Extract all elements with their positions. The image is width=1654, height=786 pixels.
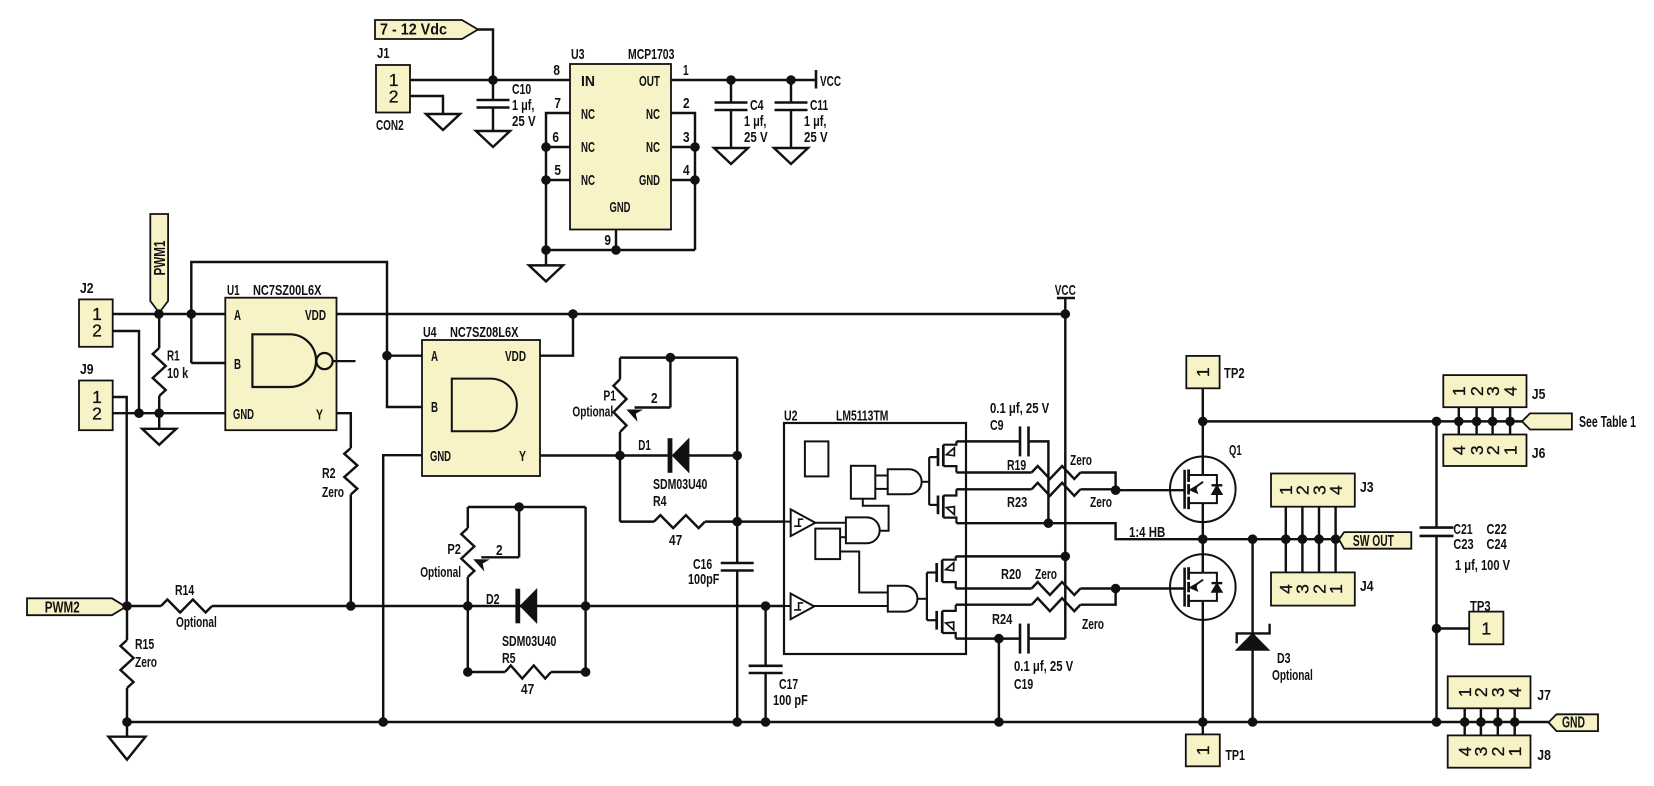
svg-text:CON2: CON2 [376, 117, 404, 134]
svg-text:3: 3 [683, 129, 690, 146]
svg-text:Zero: Zero [1070, 452, 1092, 469]
svg-text:SDM03U40: SDM03U40 [502, 633, 556, 650]
svg-text:GND: GND [1562, 715, 1585, 732]
svg-text:R1: R1 [167, 348, 180, 365]
svg-text:Optional: Optional [1272, 667, 1313, 684]
svg-text:25 V: 25 V [804, 129, 828, 146]
svg-text:47: 47 [521, 681, 534, 698]
svg-text:LM5113TM: LM5113TM [836, 408, 888, 425]
svg-text:C11: C11 [810, 97, 828, 114]
svg-text:NC: NC [581, 139, 595, 156]
svg-text:NC: NC [646, 106, 660, 123]
svg-text:Optional: Optional [572, 404, 613, 421]
svg-text:R20: R20 [1001, 566, 1021, 583]
svg-text:SW OUT: SW OUT [1353, 533, 1394, 550]
svg-text:C4: C4 [750, 97, 764, 114]
svg-text:Zero: Zero [1082, 616, 1104, 633]
svg-text:4: 4 [1326, 485, 1346, 495]
svg-text:2: 2 [683, 95, 690, 112]
svg-text:R14: R14 [175, 582, 195, 599]
svg-text:2: 2 [92, 320, 102, 340]
svg-text:25 V: 25 V [512, 113, 536, 130]
svg-text:C17: C17 [779, 676, 798, 693]
svg-text:4: 4 [1505, 687, 1525, 697]
svg-text:Y: Y [316, 407, 323, 424]
svg-text:10 k: 10 k [167, 365, 189, 382]
svg-text:IN: IN [581, 73, 595, 90]
svg-text:J2: J2 [80, 280, 94, 297]
svg-text:PWM1: PWM1 [152, 240, 169, 275]
svg-text:1: 1 [1505, 747, 1525, 757]
svg-text:R24: R24 [992, 611, 1013, 628]
svg-text:B: B [234, 356, 241, 373]
svg-text:1 μf,: 1 μf, [804, 113, 826, 130]
svg-text:VCC: VCC [1055, 282, 1076, 299]
svg-text:MCP1703: MCP1703 [628, 46, 674, 63]
svg-text:1 μf,: 1 μf, [512, 97, 534, 114]
svg-text:U2: U2 [784, 408, 798, 425]
svg-text:Zero: Zero [1090, 494, 1112, 511]
svg-text:1: 1 [1193, 745, 1213, 755]
svg-text:D1: D1 [638, 437, 651, 454]
svg-text:TP3: TP3 [1470, 598, 1491, 615]
svg-text:A: A [234, 307, 241, 324]
svg-text:7 - 12 Vdc: 7 - 12 Vdc [380, 21, 447, 38]
svg-text:9: 9 [604, 232, 611, 249]
svg-text:Optional: Optional [420, 564, 461, 581]
svg-text:2: 2 [389, 86, 399, 106]
svg-text:C9: C9 [990, 417, 1004, 434]
svg-text:R23: R23 [1007, 494, 1027, 511]
svg-text:Zero: Zero [322, 484, 344, 501]
svg-text:J3: J3 [1360, 479, 1374, 496]
svg-text:GND: GND [233, 406, 254, 423]
svg-text:R2: R2 [322, 465, 336, 482]
svg-text:PWM2: PWM2 [45, 600, 80, 617]
svg-text:1:4 HB: 1:4 HB [1129, 524, 1165, 541]
svg-text:1: 1 [1500, 445, 1520, 455]
svg-text:NC7SZ08L6X: NC7SZ08L6X [450, 324, 518, 341]
svg-text:GND: GND [610, 199, 631, 216]
svg-text:Zero: Zero [135, 654, 157, 671]
svg-text:4: 4 [683, 162, 690, 179]
svg-text:100pF: 100pF [688, 571, 719, 588]
svg-text:Optional: Optional [176, 614, 217, 631]
svg-text:B: B [431, 399, 438, 416]
svg-text:25 V: 25 V [744, 129, 768, 146]
svg-text:1: 1 [683, 62, 689, 79]
svg-text:U3: U3 [571, 46, 585, 63]
svg-text:C19: C19 [1014, 676, 1033, 693]
svg-text:J9: J9 [80, 361, 94, 378]
svg-text:2: 2 [651, 390, 658, 407]
svg-text:C10: C10 [512, 81, 531, 98]
svg-text:TP1: TP1 [1225, 747, 1245, 764]
svg-text:R5: R5 [502, 650, 516, 667]
svg-text:See Table 1: See Table 1 [1579, 414, 1636, 431]
svg-text:Y: Y [519, 448, 526, 465]
svg-text:TP2: TP2 [1224, 365, 1245, 382]
svg-text:P1: P1 [603, 388, 616, 405]
svg-text:1: 1 [1193, 367, 1213, 377]
svg-text:A: A [431, 348, 438, 365]
svg-text:VDD: VDD [305, 307, 326, 324]
svg-text:NC7SZ00L6X: NC7SZ00L6X [253, 282, 321, 299]
svg-text:6: 6 [552, 129, 559, 146]
svg-text:P2: P2 [447, 541, 461, 558]
svg-text:C23: C23 [1453, 536, 1473, 553]
svg-text:J7: J7 [1537, 687, 1551, 704]
svg-text:2: 2 [496, 542, 503, 559]
svg-text:GND: GND [639, 172, 660, 189]
svg-text:VCC: VCC [820, 73, 841, 90]
svg-text:C24: C24 [1487, 536, 1508, 553]
svg-text:U1: U1 [227, 282, 240, 299]
svg-text:5: 5 [554, 162, 561, 179]
svg-text:NC: NC [581, 172, 595, 189]
svg-text:Q1: Q1 [1229, 442, 1242, 459]
svg-text:U4: U4 [423, 324, 437, 341]
svg-text:1 μf, 100 V: 1 μf, 100 V [1455, 557, 1510, 574]
svg-text:OUT: OUT [639, 73, 660, 90]
svg-text:100 pF: 100 pF [773, 692, 808, 709]
svg-text:J5: J5 [1532, 386, 1546, 403]
svg-text:NC: NC [581, 106, 595, 123]
svg-text:R19: R19 [1007, 457, 1026, 474]
svg-text:GND: GND [430, 448, 451, 465]
svg-text:0.1 μf, 25 V: 0.1 μf, 25 V [990, 400, 1049, 417]
svg-text:1: 1 [1481, 618, 1491, 638]
svg-text:0.1 μf, 25 V: 0.1 μf, 25 V [1014, 658, 1073, 675]
svg-text:2: 2 [92, 404, 102, 424]
svg-text:J1: J1 [377, 45, 390, 62]
svg-text:7: 7 [554, 95, 561, 112]
svg-text:D3: D3 [1277, 650, 1291, 667]
svg-text:J4: J4 [1360, 578, 1374, 595]
svg-text:R4: R4 [653, 493, 667, 510]
svg-text:VDD: VDD [505, 348, 526, 365]
svg-text:Zero: Zero [1035, 566, 1057, 583]
svg-text:1: 1 [1326, 584, 1346, 594]
svg-text:4: 4 [1500, 386, 1520, 396]
svg-text:8: 8 [553, 62, 560, 79]
svg-text:1 μf,: 1 μf, [744, 113, 766, 130]
svg-text:J6: J6 [1532, 445, 1546, 462]
svg-text:J8: J8 [1537, 747, 1551, 764]
svg-text:SDM03U40: SDM03U40 [653, 476, 707, 493]
svg-text:NC: NC [646, 139, 660, 156]
svg-text:R15: R15 [135, 636, 154, 653]
svg-text:47: 47 [669, 532, 682, 549]
